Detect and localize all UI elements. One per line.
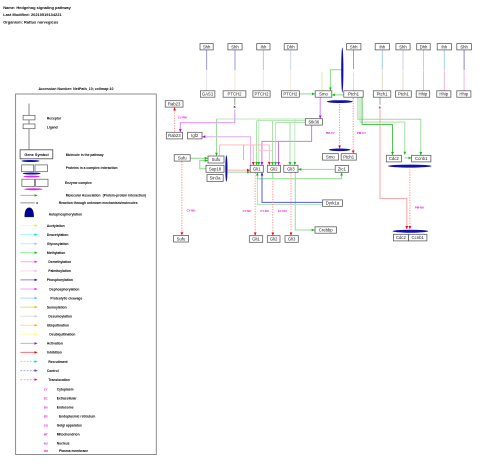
edge complex to Gli1 (red arrow into left edge) (228, 169, 250, 171)
edge complex to Gli1 (green arrow into left edge) (228, 171, 250, 173)
node Gli1 (CY) (250, 165, 263, 172)
wire Shh to GAS1 (column 1) (206, 50, 208, 91)
svg-text:Endoplasmic reticulum: Endoplasmic reticulum (59, 415, 95, 419)
node Ihh (ligand 9) (437, 44, 451, 50)
svg-text:Shh: Shh (399, 44, 407, 49)
translocation Ptch1 PM to CY (red dashed) (353, 98, 366, 154)
svg-text:EC: EC (44, 397, 48, 401)
node Shh (ligand 1) (200, 44, 213, 50)
svg-text:ER: ER (44, 415, 48, 419)
junction cross on Cdc2 arc (409, 165, 411, 167)
svg-text:Rab23: Rab23 (168, 133, 181, 138)
node Cdc2 (NU) (393, 234, 408, 241)
legend enzyme complex (22, 176, 92, 191)
svg-text:Sin3a: Sin3a (210, 176, 222, 181)
legend plasma membrane (44, 449, 89, 453)
translocation Gli3 CY to NU (red dashed) (278, 173, 291, 236)
svg-text:Sap18: Sap18 (209, 167, 222, 172)
legend palmitoylation (20, 269, 71, 273)
node Shh (ligand 7) (396, 44, 410, 50)
edge Sufu to Sufu-complex (green arrow) (190, 157, 207, 159)
wire Ihh to Ptch1 (column 6) (381, 50, 383, 91)
node Hhip (3) (457, 91, 471, 97)
svg-text:Cdc2: Cdc2 (396, 235, 407, 240)
node Dhh (ligand 4) (284, 44, 297, 50)
svg-text:Ihh: Ihh (379, 44, 386, 49)
translocation Sufu CY to NU (red dashed) (182, 161, 195, 235)
svg-text:PM-NU: PM-NU (415, 206, 424, 210)
legend recruitment (20, 360, 68, 364)
node Gli1 (NU) (249, 236, 262, 243)
svg-text:Sumoylation: Sumoylation (47, 305, 67, 309)
svg-text:Plasma membrane: Plasma membrane (59, 449, 88, 453)
legend proteins in a complex (22, 160, 118, 175)
complex arc Cdc2:Ccnb1 bottom (393, 230, 429, 233)
wire Shh to PTCH2 (column 2) (234, 50, 236, 91)
legend extracellular (44, 397, 78, 401)
svg-text:Shh: Shh (231, 44, 239, 49)
svg-text:Demethylation: Demethylation (48, 260, 71, 264)
complex bracket Shh:Ptch1 (navy bar) (341, 48, 343, 93)
node Smo (CY) (322, 154, 338, 160)
svg-text:Golgi apparatus: Golgi apparatus (57, 424, 82, 428)
svg-text:Ptch1: Ptch1 (348, 92, 360, 97)
edge Ptch1 to Smo (green arrow, pointing left) (332, 94, 343, 96)
translocation Cdc2:Ccnb1 to NU (red dashed) (410, 169, 424, 229)
green drop into Sufu complex top (216, 119, 218, 156)
edge Shh:Ptch1 complex to Smo (green, activation of Smo) (330, 70, 342, 91)
svg-text:Ptch1: Ptch1 (343, 155, 355, 160)
svg-text:Deacetylation: Deacetylation (47, 233, 68, 237)
svg-text:Ptch1: Ptch1 (377, 92, 389, 97)
edge Gli3 to Crebbp (green) (295, 173, 314, 231)
svg-text:Enzyme complex: Enzyme complex (65, 181, 92, 185)
svg-text:Gli2: Gli2 (270, 237, 278, 242)
wire Shh to Ptch1 (column 5) (353, 50, 355, 91)
node Gli2 (CY) (267, 165, 280, 172)
svg-text:CY-NU: CY-NU (243, 209, 252, 213)
node Cdc2 (top) (386, 155, 401, 162)
legend phosphorylation (20, 278, 73, 282)
svg-text:Proteolytic cleavage: Proteolytic cleavage (50, 296, 82, 300)
svg-text:GAS1: GAS1 (202, 92, 214, 97)
svg-text:NU: NU (44, 442, 48, 446)
svg-text:Gli3: Gli3 (287, 167, 295, 172)
svg-text:Gli3: Gli3 (288, 237, 296, 242)
svg-text:Proteins in a complex interact: Proteins in a complex interaction (66, 166, 118, 170)
svg-text:PTCH2: PTCH2 (283, 92, 298, 97)
legend cytoplasm (44, 388, 74, 392)
node Ccnb1 (NU) (409, 234, 427, 241)
svg-text:Shh: Shh (350, 44, 358, 49)
svg-text:CY-NU: CY-NU (278, 209, 287, 213)
node Gli3 (CY) (284, 165, 298, 172)
svg-text:Stk36: Stk36 (308, 120, 320, 125)
legend glycosylation (20, 242, 68, 246)
svg-text:Inhibition: Inhibition (47, 351, 62, 355)
edge Zic1 to Gli3 (green arrow pointing left) (298, 168, 335, 170)
legend deacetylation (20, 233, 68, 237)
complex arc Smo:Ptch1 at PM (327, 100, 353, 103)
legend demethylation (20, 260, 71, 264)
svg-text:Nucleus: Nucleus (57, 442, 70, 446)
green drops into Gli1 top (257, 119, 259, 165)
svg-text:Acetylation: Acetylation (47, 224, 65, 228)
svg-text:Molecule in the pathway: Molecule in the pathway (66, 153, 104, 157)
svg-text:Dhh: Dhh (287, 44, 295, 49)
svg-text:Extracellular: Extracellular (57, 397, 78, 401)
legend sumoylation (20, 305, 66, 309)
svg-text:Mitochondrion: Mitochondrion (57, 433, 80, 437)
svg-text:Smo: Smo (319, 92, 328, 97)
node Gli2 (NU) (267, 236, 280, 243)
wire Shh to Hhip (column 10) (463, 50, 465, 91)
svg-text:PTCH2: PTCH2 (228, 92, 243, 97)
wire Shh to Ptch1 (column 7) (402, 50, 404, 91)
svg-text:Ihh: Ihh (441, 44, 448, 49)
node Dhh (ligand 8) (417, 44, 431, 50)
legend activation (20, 342, 62, 346)
edge Ptch1 to Ccnb1 green 2 (360, 97, 405, 154)
svg-text:PM-CY: PM-CY (326, 131, 335, 135)
reaction stub a under PTCH2 (234, 97, 236, 109)
header title text (3, 5, 71, 24)
legend inhibition (20, 351, 61, 355)
svg-text:MT: MT (44, 433, 48, 437)
node Smo (PM) (315, 91, 332, 97)
svg-text:Activation: Activation (47, 342, 63, 346)
node Shh (ligand 2) (228, 44, 242, 50)
reaction stub a under Ptch1 (379, 97, 381, 109)
svg-text:Hhip: Hhip (439, 92, 448, 97)
legend ubiquitination (20, 324, 69, 328)
legend translocation (20, 378, 69, 382)
node Sufu (NU) (174, 236, 189, 243)
node Ptch1 (PM 2) (373, 91, 391, 97)
svg-text:Palmitoylation: Palmitoylation (48, 269, 71, 273)
legend molecular association (20, 194, 146, 198)
wire Ihh to Hhip (column 9) (443, 50, 445, 91)
legend gene symbol box (20, 150, 104, 159)
svg-text:Sufu: Sufu (177, 236, 186, 241)
translocation Gli1 CY to NU (red dashed) (243, 173, 256, 236)
svg-text:Shh: Shh (460, 44, 468, 49)
legend interaction-type arrows (20, 224, 82, 382)
svg-text:Translocation: Translocation (48, 378, 69, 382)
wire Dhh to Hhip (column 8) (423, 50, 425, 91)
legend methylation (20, 251, 65, 255)
edge Gli1 to Igf2 (lavender violet) (202, 137, 250, 166)
svg-text:Autophosphorylation: Autophosphorylation (49, 213, 82, 217)
svg-text:Ubiquitination: Ubiquitination (47, 324, 69, 328)
svg-text:Reaction through unknown mecha: Reaction through unknown mechanism/molec… (59, 201, 138, 205)
complex bracket Sufu:Sap18:Sin3a (navy bar) (225, 155, 227, 181)
node Ptch1 (PM 1) (344, 91, 363, 97)
svg-text:PM-CY: PM-CY (357, 131, 366, 135)
svg-text:Dephosphorylation: Dephosphorylation (49, 287, 79, 291)
wire Dhh to PTCH2 (column 4) (290, 50, 292, 91)
svg-text:Gli2: Gli2 (270, 167, 278, 172)
svg-text:Zic1: Zic1 (338, 167, 347, 172)
node Ihh (ligand 6) (375, 44, 389, 50)
legend proteolytic cleavage (20, 296, 82, 300)
legend desumoylation (20, 315, 72, 319)
svg-text:Desumoylation: Desumoylation (48, 315, 72, 319)
edge Ptch1 inhibition of Cdc2:Ccnb1 (salmon red) (380, 110, 407, 229)
node Sap18 (206, 165, 224, 172)
complex arc Smo:Ptch1 in CY (329, 149, 351, 152)
svg-text:Organism: Rattus norvegicus: Organism: Rattus norvegicus (3, 19, 59, 24)
node Hhip (1) (416, 91, 430, 97)
legend receptor symbol (23, 104, 62, 121)
svg-text:CY: CY (44, 388, 48, 392)
edge Cdc2 to Ccnb1 green short arrow (405, 157, 411, 159)
edge Smo to Stk36 (violet) (319, 97, 321, 118)
node Rab23 (PM) (165, 101, 183, 107)
translocation Rab23 CY to PM (red dashed, arrow up) (175, 108, 188, 132)
svg-text:EN: EN (44, 406, 48, 410)
svg-text:PTCH2: PTCH2 (255, 92, 270, 97)
legend compartment codes (44, 388, 96, 453)
svg-text:a: a (234, 105, 236, 109)
node Dyrk1a (323, 200, 343, 206)
legend nucleus (44, 442, 70, 446)
translocation Smo PM to CY (red dashed) (326, 104, 340, 148)
node Stk36 (305, 119, 322, 125)
legend mitochondrion (44, 433, 80, 437)
svg-text:Molecular Association: Molecular Association (66, 194, 101, 198)
svg-text:Endosome: Endosome (57, 406, 74, 410)
svg-text:Deubiquitination: Deubiquitination (49, 333, 75, 337)
node Ihh (ligand 3) (257, 44, 270, 50)
svg-text:Smo: Smo (326, 155, 335, 160)
svg-text:Last Modified: 20210519134221: Last Modified: 20210519134221 (3, 12, 62, 17)
svg-text:Ligand: Ligand (47, 126, 58, 130)
svg-text:Sufu: Sufu (212, 157, 221, 162)
legend endoplasmic reticulum (44, 415, 96, 419)
node Sin3a (207, 175, 223, 182)
legend endosome (44, 406, 74, 410)
node GAS1 (200, 91, 215, 97)
edge Ptch1 to Ccnb1 green 1 (358, 97, 421, 155)
svg-text:Phosphorylation: Phosphorylation (47, 278, 73, 282)
node Ccnb1 (top) (412, 155, 431, 162)
edge Dyrk1a to Gli1 (blue phosphorylation) (262, 173, 322, 203)
green drops into Gli2 top (272, 121, 275, 165)
svg-text:Gli1: Gli1 (253, 167, 261, 172)
node Rab23 (CY) (166, 132, 182, 139)
node Hhip (2) (437, 91, 451, 97)
node Ptch1 (CY) (341, 154, 356, 160)
edge PTCH2 to Smo (green arrow) (299, 93, 315, 95)
node PTCH2 (2) (253, 91, 270, 97)
svg-text:(Protein-protein interaction): (Protein-protein interaction) (103, 194, 147, 198)
svg-text:a: a (379, 106, 381, 110)
edge Stk36 to Gli1 and Gli2 (violet rail) (262, 125, 312, 165)
legend deubiquitination (20, 333, 75, 337)
svg-text:CY-NU: CY-NU (187, 208, 196, 212)
svg-text:Ccnb1: Ccnb1 (412, 235, 425, 240)
complex arc Cdc2:Ccnb1 top (388, 165, 432, 168)
svg-text:CY-NU: CY-NU (260, 209, 269, 213)
svg-text:Hhip: Hhip (459, 92, 468, 97)
green drops into Gli3 top (290, 119, 295, 165)
svg-text:Hhip: Hhip (419, 92, 428, 97)
edge acetylation (yellow) into Smo (321, 72, 323, 90)
svg-text:Dhh: Dhh (420, 44, 428, 49)
node Shh (ligand 5) (347, 44, 361, 50)
wire Ihh to PTCH2 (column 3) (262, 50, 264, 91)
svg-text:Name: Hedgehog signaling pathw: Name: Hedgehog signaling pathway (3, 5, 71, 10)
svg-text:Ihh: Ihh (260, 44, 267, 49)
legend control (20, 369, 58, 373)
svg-text:Shh: Shh (203, 44, 211, 49)
node PTCH2 (3) (282, 91, 300, 97)
svg-text:Dyrk1a: Dyrk1a (326, 201, 340, 206)
legend autophosphorylation dome (25, 208, 82, 217)
junction cross on PM arc (339, 101, 341, 103)
node Igf2 (188, 132, 203, 139)
node Ptch1 (PM 3) (396, 91, 412, 97)
svg-text:Crebbp: Crebbp (319, 228, 334, 233)
svg-text:Cytoplasm: Cytoplasm (57, 388, 74, 392)
svg-text:PM: PM (44, 449, 49, 453)
legend acetylation (20, 224, 64, 228)
edge Gli1 to Dyrk1a (pale green) (257, 179, 322, 205)
node Shh (ligand 10) (457, 44, 472, 50)
edge PTCH2 to Rab23 (violet activation) (180, 110, 235, 132)
red inhibition rail to Sufu / Gli1 / Gli2 (220, 145, 273, 165)
node Crebbp (315, 227, 336, 233)
svg-text:Ptch1: Ptch1 (398, 92, 410, 97)
svg-text:Gene Symbol: Gene Symbol (24, 153, 48, 157)
legend dephosphorylation (20, 287, 79, 291)
node Sufu (CY) (174, 155, 190, 161)
node Gli3 (NU) (285, 236, 298, 243)
svg-text:a: a (36, 201, 38, 205)
edge Ptch1 to Cdc2 green 3 (362, 97, 392, 155)
svg-text:Accession Number: NetPath_10;: Accession Number: NetPath_10; cellmap:10 (38, 87, 113, 91)
legend frame (16, 94, 157, 455)
svg-text:Gli1: Gli1 (252, 237, 260, 242)
legend ligand symbol (23, 120, 58, 150)
legend reaction unknown (20, 201, 137, 205)
node Sufu (complex) (208, 156, 224, 163)
svg-text:Recruitment: Recruitment (48, 360, 68, 364)
svg-text:CY-PM: CY-PM (178, 116, 188, 120)
svg-text:Glycosylation: Glycosylation (47, 242, 69, 246)
svg-text:Igf2: Igf2 (191, 133, 199, 138)
node Zic1 (335, 166, 348, 173)
svg-text:Ccnb1: Ccnb1 (415, 156, 428, 161)
svg-text:Receptor: Receptor (47, 116, 62, 120)
legend golgi apparatus (44, 424, 82, 428)
translocation Gli2 CY to NU (red dashed) (260, 181, 273, 235)
node PTCH2 (1) (223, 91, 246, 97)
svg-text:Sufu: Sufu (178, 156, 187, 161)
svg-text:Rab23: Rab23 (168, 102, 181, 107)
svg-text:Control: Control (47, 369, 59, 373)
edge Gli2 to Gli1 and Zic1 (green rail below) (257, 173, 341, 179)
green rails from Stk36 to Sufu-complex / Gli1 / Gli2 / Gli3 (217, 119, 306, 122)
svg-text:Cdc2: Cdc2 (389, 156, 400, 161)
svg-text:Methylation: Methylation (47, 251, 65, 255)
edge Sap18 to Sufu loop (green) (200, 161, 208, 169)
